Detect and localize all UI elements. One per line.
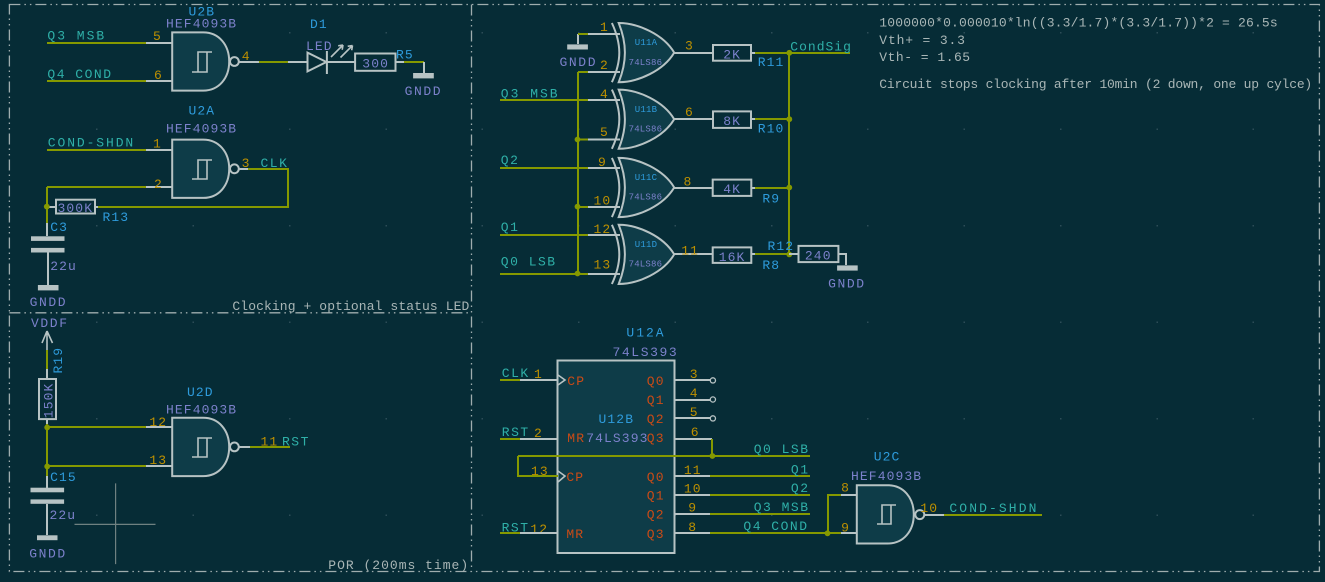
- wire U2B out to D1: [259, 61, 288, 63]
- svg-text:Q0: Q0: [647, 374, 665, 389]
- svg-text:Q3: Q3: [647, 431, 665, 446]
- pin 5 stub + nc: [674, 417, 710, 419]
- diode D1 anode pin: [288, 61, 308, 63]
- svg-text:LED: LED: [306, 39, 333, 54]
- junction CondSig: [786, 50, 792, 56]
- graphic cross lines: [75, 483, 156, 564]
- wire GNDD to U11A pin 1: [578, 33, 588, 35]
- U11A output stub: [674, 52, 713, 54]
- svg-text:150K: 150K: [41, 383, 56, 419]
- pin 13 stub: [146, 465, 172, 467]
- wire Q2 net: [710, 494, 810, 496]
- svg-text:4: 4: [600, 87, 609, 102]
- svg-text:R19: R19: [51, 347, 66, 374]
- svg-text:U12A: U12A: [626, 326, 665, 341]
- svg-text:Q0 LSB: Q0 LSB: [754, 442, 810, 457]
- svg-text:74LS86: 74LS86: [629, 58, 663, 68]
- wire Q4 COND to U2B pin 6: [47, 80, 146, 82]
- svg-text:Q1: Q1: [647, 489, 665, 504]
- svg-text:5: 5: [690, 405, 699, 420]
- svg-text:Clocking + optional status LED: Clocking + optional status LED: [232, 299, 469, 314]
- svg-text:1: 1: [600, 20, 609, 35]
- wire COND-SHDN out: [944, 514, 1042, 516]
- xor U11A back arc: [612, 23, 619, 82]
- ground GNDD (R12) bar: [837, 265, 858, 270]
- ground GNDD (C15) bar: [37, 535, 58, 540]
- svg-text:12: 12: [530, 522, 548, 537]
- section divider horizontal (clocking box): [9, 312, 471, 314]
- xor U11D back arc: [612, 225, 619, 284]
- svg-text:300K: 300K: [58, 201, 94, 216]
- svg-text:10: 10: [594, 193, 612, 208]
- resistor R19 bottom stub: [46, 419, 48, 424]
- svg-text:U11D: U11D: [635, 240, 657, 250]
- ground GNDD (C3) bar: [38, 285, 59, 290]
- svg-text:U2D: U2D: [187, 385, 214, 400]
- schmitt mark U2D: [192, 438, 212, 457]
- U11C pin 10 stub: [588, 206, 620, 208]
- resistor R9 body: [713, 180, 752, 196]
- svg-text:74LS393: 74LS393: [586, 431, 648, 446]
- section divider vertical: [471, 5, 473, 572]
- junction bus pin10: [575, 204, 581, 210]
- svg-text:MR: MR: [567, 431, 585, 446]
- svg-text:11: 11: [684, 463, 702, 478]
- U2D output pin stub: [239, 446, 250, 448]
- wire CLK feedback loop: [98, 169, 288, 207]
- svg-text:U11A: U11A: [635, 38, 658, 48]
- output bubble U2A: [230, 164, 239, 173]
- wire Q0 LSB net: [518, 455, 810, 457]
- svg-text:HEF4093B: HEF4093B: [166, 122, 237, 137]
- pin 12 stub (U12B): [520, 532, 558, 534]
- svg-text:Q0: Q0: [647, 470, 665, 485]
- svg-text:R5: R5: [396, 48, 414, 63]
- capacitor C3 plates: [31, 236, 65, 241]
- U11C output stub: [674, 187, 713, 189]
- output bubble U2C: [915, 510, 924, 519]
- svg-text:13: 13: [149, 453, 167, 468]
- output bubble U2B: [230, 57, 239, 66]
- wire RST to pin 12: [500, 532, 520, 534]
- wire CLK to pin 1: [500, 379, 520, 381]
- svg-text:R12: R12: [768, 239, 795, 254]
- U2A output pin stub: [239, 168, 248, 170]
- svg-text:U11C: U11C: [635, 173, 658, 183]
- svg-text:CP: CP: [566, 470, 584, 485]
- capacitor C15 top pin: [46, 466, 48, 476]
- schmitt mark U2C: [877, 505, 896, 524]
- wire CondSig: [789, 52, 850, 54]
- wire R9 to rail: [751, 187, 755, 189]
- svg-text:U12B: U12B: [599, 412, 635, 427]
- pin 6 stub (U12A Q3): [674, 438, 712, 440]
- clock mark U12B: [558, 471, 565, 482]
- svg-text:Q2: Q2: [647, 412, 665, 427]
- wire RST out: [250, 446, 290, 448]
- svg-text:CLK: CLK: [502, 366, 530, 381]
- wire RST to pin 2: [500, 438, 520, 440]
- U11D output stub: [674, 253, 713, 255]
- wire Q4 COND net: [710, 532, 841, 534]
- wire pin2 rail down: [46, 187, 48, 223]
- wire R5 to GNDD: [396, 61, 404, 63]
- wire Q3 MSB to U2B pin 5: [47, 42, 146, 44]
- svg-text:240: 240: [805, 249, 832, 264]
- svg-text:R9: R9: [762, 192, 780, 207]
- svg-text:6: 6: [691, 425, 700, 440]
- junction R19/pin12: [44, 425, 50, 431]
- nand U2A body: [172, 140, 229, 198]
- svg-text:RST: RST: [502, 425, 530, 440]
- capacitor C3 top pin: [46, 223, 48, 236]
- resistor R19 top stub: [46, 369, 48, 379]
- xor U11C body: [619, 158, 675, 217]
- svg-text:U11B: U11B: [635, 105, 658, 115]
- U2C pin 8 stub: [841, 494, 857, 496]
- U11D pin 13 stub: [588, 273, 620, 275]
- svg-text:8K: 8K: [723, 114, 741, 129]
- resistor R13 body: [56, 200, 95, 214]
- U11B pin 5 stub: [588, 139, 620, 141]
- diode D1 triangle: [308, 53, 327, 72]
- junction bus pin13: [575, 271, 581, 277]
- resistor R13 left stub: [48, 206, 56, 208]
- svg-text:C15: C15: [50, 470, 77, 485]
- nand U2B body: [172, 32, 229, 90]
- pin 6 stub: [146, 80, 172, 82]
- pin 2 stub (U12A): [520, 438, 558, 440]
- svg-text:3: 3: [685, 39, 694, 54]
- output bubble U2D: [230, 443, 239, 452]
- svg-text:10: 10: [684, 482, 702, 497]
- svg-text:2: 2: [154, 177, 163, 192]
- svg-text:Q3: Q3: [647, 527, 665, 542]
- U2C output stub: [925, 514, 945, 516]
- svg-text:POR (200ms time): POR (200ms time): [328, 558, 469, 573]
- svg-text:GNDD: GNDD: [29, 546, 67, 561]
- U11B pin 4 stub: [588, 99, 620, 101]
- svg-text:9: 9: [841, 521, 850, 536]
- xor U11C back arc: [612, 158, 619, 217]
- pin 4 stub + nc: [674, 399, 710, 401]
- svg-text:5: 5: [600, 125, 609, 140]
- capacitor C15 bottom pin: [46, 504, 48, 535]
- capacitor C3 bottom pin: [47, 252, 49, 285]
- svg-text:HEF4093B: HEF4093B: [166, 17, 237, 32]
- svg-text:22u: 22u: [50, 508, 77, 523]
- junction pin13/C15: [44, 464, 50, 470]
- power VDDF arrow: [42, 331, 53, 350]
- svg-text:74LS86: 74LS86: [629, 124, 663, 134]
- wire R19 to U2D pin 12: [47, 424, 146, 427]
- svg-text:8: 8: [841, 481, 850, 496]
- diode D1 cathode bar: [326, 51, 328, 74]
- schmitt mark U2A: [192, 160, 212, 179]
- svg-text:9: 9: [688, 501, 697, 516]
- svg-text:12: 12: [594, 222, 612, 237]
- pin 5 stub: [146, 42, 172, 44]
- nand U2D body: [172, 418, 229, 476]
- svg-text:11: 11: [681, 243, 699, 258]
- U2C pin 9 stub: [841, 532, 857, 534]
- wire bus to U11A pin 2: [578, 71, 588, 73]
- U2B output pin stub: [239, 61, 259, 63]
- U11B output stub: [674, 118, 713, 120]
- wire bus to U11C pin 10: [578, 206, 588, 208]
- junction bus pin5: [575, 137, 581, 143]
- wire R8 to rail: [751, 253, 755, 255]
- junction R8/R12 rail: [786, 252, 792, 258]
- svg-text:VDDF: VDDF: [31, 316, 69, 331]
- svg-text:300: 300: [362, 56, 389, 71]
- pin 8 stub (U12B Q3): [674, 532, 710, 534]
- ground GNDD (U11A pin1) bar: [567, 44, 588, 49]
- svg-text:3: 3: [690, 367, 699, 382]
- svg-text:GNDD: GNDD: [405, 84, 443, 99]
- svg-text:HEF4093B: HEF4093B: [851, 469, 922, 484]
- svg-text:R10: R10: [758, 121, 785, 136]
- xor U11A body: [619, 23, 675, 82]
- wire Q1 to U11D pin 12: [500, 234, 588, 236]
- svg-text:Q2: Q2: [501, 153, 520, 168]
- pin 1 stub (U12A): [520, 379, 558, 381]
- ground GNDD (R5) pin: [423, 62, 425, 73]
- svg-text:R8: R8: [762, 258, 780, 273]
- svg-text:Q3 MSB: Q3 MSB: [47, 28, 106, 43]
- pin 11 stub (U12B Q0): [674, 475, 710, 477]
- wire COND-SHDN to U2A pin 1: [47, 149, 146, 151]
- svg-text:Q4 COND: Q4 COND: [47, 67, 112, 82]
- svg-text:13: 13: [531, 464, 549, 479]
- pin 3 stub + nc: [674, 379, 710, 381]
- svg-text:CP: CP: [567, 374, 585, 389]
- resistor R11 body: [713, 45, 751, 61]
- svg-text:2: 2: [600, 58, 609, 73]
- svg-text:4: 4: [690, 386, 699, 401]
- svg-text:Q3 MSB: Q3 MSB: [754, 500, 810, 515]
- resistor R19 body: [39, 379, 56, 419]
- svg-text:GNDD: GNDD: [30, 295, 68, 310]
- svg-text:74LS393: 74LS393: [613, 345, 679, 360]
- wire bus to U11B pin 5: [578, 139, 588, 141]
- junction R13/C3/pin2: [44, 204, 50, 210]
- wire summing rail: [788, 53, 790, 254]
- svg-text:Vth+ = 3.3: Vth+ = 3.3: [879, 33, 966, 48]
- diode D1 cathode pin: [327, 61, 355, 63]
- svg-text:Q1: Q1: [501, 220, 520, 235]
- svg-text:R11: R11: [758, 55, 785, 70]
- xor U11D body: [619, 225, 675, 284]
- svg-text:6: 6: [685, 105, 694, 120]
- svg-text:U2C: U2C: [874, 449, 901, 464]
- svg-text:Q4 COND: Q4 COND: [743, 519, 808, 534]
- svg-text:Q0 LSB: Q0 LSB: [501, 254, 557, 269]
- schmitt mark U2B: [192, 52, 212, 72]
- resistor R10 body: [713, 111, 751, 128]
- ground GNDD (U11A pin1) pin: [577, 34, 579, 44]
- svg-text:1000000*0.000010*ln((3.3/1.7)*: 1000000*0.000010*ln((3.3/1.7)*(3.3/1.7))…: [879, 16, 1278, 31]
- wire R10 to rail: [751, 118, 755, 120]
- pin 2 stub: [146, 186, 172, 188]
- wire rail down to pin 13: [47, 427, 146, 466]
- svg-text:Q1: Q1: [647, 393, 665, 408]
- resistor R13 right stub: [95, 206, 98, 208]
- wire loop to pin 13: [518, 456, 558, 476]
- svg-text:12: 12: [149, 415, 167, 430]
- wire Q3 MSB to U11B pin 4: [500, 99, 588, 101]
- svg-text:D1: D1: [310, 17, 328, 32]
- svg-text:C3: C3: [50, 220, 68, 235]
- U11A pin 2 stub: [588, 71, 620, 73]
- svg-text:5: 5: [153, 29, 162, 44]
- wire input bus rail: [577, 72, 579, 274]
- svg-text:MR: MR: [566, 527, 584, 542]
- resistor R12 body (240): [799, 246, 839, 262]
- resistor R5 body: [355, 54, 395, 71]
- wire Q2 to U11C pin 9: [500, 167, 588, 169]
- svg-text:74LS86: 74LS86: [629, 193, 663, 203]
- wire R11 to CondSig: [751, 52, 755, 54]
- svg-text:Vth- = 1.65: Vth- = 1.65: [879, 50, 970, 65]
- svg-text:GNDD: GNDD: [560, 55, 598, 70]
- svg-text:9: 9: [598, 155, 607, 170]
- svg-text:CondSig: CondSig: [790, 39, 852, 54]
- wire pin6 down to Q0 LSB: [711, 439, 713, 456]
- U11D pin 12 stub: [588, 234, 620, 236]
- junction Q0 LSB: [710, 453, 716, 459]
- svg-text:8: 8: [688, 520, 697, 535]
- wire VDDF to R19: [46, 350, 48, 369]
- LED arrows: [331, 45, 353, 58]
- svg-text:8: 8: [684, 174, 693, 189]
- svg-text:Q2: Q2: [791, 481, 810, 496]
- pin 10 stub (U12B Q1): [674, 494, 710, 496]
- wire Q0 LSB to U11D pin 13: [500, 273, 588, 275]
- svg-text:1: 1: [153, 137, 162, 152]
- svg-text:U2A: U2A: [189, 104, 216, 119]
- xor U11B back arc: [612, 90, 619, 149]
- svg-text:13: 13: [594, 257, 612, 272]
- junction R10 rail: [786, 116, 792, 122]
- svg-text:2K: 2K: [723, 47, 741, 62]
- svg-text:Q2: Q2: [647, 507, 665, 522]
- wire U2C pin8 elbow: [828, 495, 841, 533]
- svg-text:GNDD: GNDD: [828, 277, 866, 292]
- resistor R12 left stub: [789, 253, 798, 255]
- svg-text:74LS86: 74LS86: [629, 260, 663, 270]
- wire Q1 net: [710, 475, 810, 477]
- svg-text:HEF4093B: HEF4093B: [166, 403, 237, 418]
- ground GNDD (R5) bar: [413, 73, 434, 78]
- nand U2C body: [857, 485, 914, 543]
- wire U2A pin 2 feedback: [47, 186, 146, 188]
- svg-text:COND-SHDN: COND-SHDN: [48, 135, 135, 150]
- U11A pin 1 stub: [588, 33, 620, 35]
- U11C pin 9 stub: [588, 167, 620, 169]
- svg-text:6: 6: [154, 68, 163, 83]
- pin 1 stub: [146, 149, 172, 151]
- junction Q4 COND / U2C: [825, 530, 831, 536]
- svg-text:Circuit stops clocking after 1: Circuit stops clocking after 10min (2 do…: [879, 77, 1312, 92]
- capacitor C15 plates: [31, 488, 65, 493]
- xor U11B body: [619, 90, 675, 149]
- resistor R8 body (16K): [713, 247, 752, 263]
- junction R9 rail: [786, 185, 792, 191]
- svg-text:R13: R13: [103, 210, 130, 225]
- wire Q3 MSB net: [710, 513, 810, 515]
- wire R12 to GNDD: [838, 254, 846, 265]
- U12 body: [558, 361, 675, 554]
- pin 12 stub: [146, 426, 172, 428]
- svg-text:Q1: Q1: [791, 463, 810, 478]
- grid dots: [96, 32, 1254, 516]
- svg-text:10: 10: [920, 501, 938, 516]
- svg-text:COND-SHDN: COND-SHDN: [949, 501, 1038, 516]
- pin 9 stub (U12B Q2): [674, 513, 710, 515]
- svg-text:22u: 22u: [50, 259, 77, 274]
- svg-text:16K: 16K: [719, 250, 746, 265]
- clock mark U12A: [558, 375, 565, 385]
- svg-text:4K: 4K: [723, 182, 741, 197]
